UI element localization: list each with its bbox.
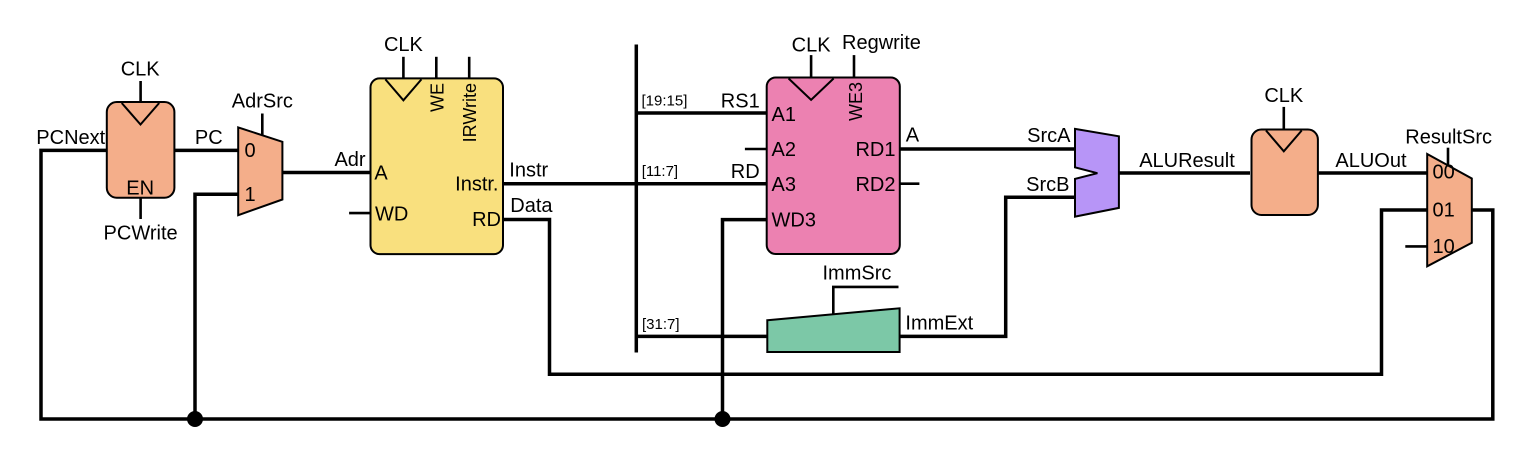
wire instruction bus vertical <box>635 45 639 353</box>
svg-text:Instr.: Instr. <box>455 173 498 195</box>
register ALUOut <box>1252 130 1318 216</box>
wire PC (register to AdrSrc mux input 0) <box>174 149 238 153</box>
svg-text:ALUResult: ALUResult <box>1139 150 1235 172</box>
wire RS1 tap [19:15] to A1 <box>636 111 766 115</box>
wire Adr (mux output to memory A) <box>282 171 370 175</box>
wire stub RD2 <box>900 182 919 185</box>
junction at bottom (Result to WD3) <box>715 411 731 427</box>
svg-text:RD2: RD2 <box>855 174 895 196</box>
svg-text:RS1: RS1 <box>721 91 760 113</box>
svg-text:Instr: Instr <box>509 159 548 181</box>
register file <box>767 78 900 255</box>
svg-text:SrcB: SrcB <box>1026 174 1069 196</box>
svg-text:10: 10 <box>1433 236 1455 258</box>
svg-text:Data: Data <box>510 195 553 217</box>
svg-text:WD: WD <box>375 203 408 225</box>
junction at bottom-left (Result to AdrSrc 1) <box>187 411 203 427</box>
svg-text:Regwrite: Regwrite <box>842 32 921 54</box>
svg-text:A1: A1 <box>772 104 796 126</box>
svg-text:EN: EN <box>126 178 154 200</box>
svg-text:0: 0 <box>245 140 256 162</box>
wire [31:7] tap to Extend <box>636 335 767 339</box>
svg-text:RD: RD <box>472 209 501 231</box>
memory Instr / Data memory <box>371 78 504 254</box>
svg-text:SrcA: SrcA <box>1027 125 1071 147</box>
svg-text:[11:7]: [11:7] <box>642 163 678 180</box>
clock chevron of ALUOut register <box>1266 131 1302 152</box>
svg-text:00: 00 <box>1433 161 1455 183</box>
svg-text:01: 01 <box>1433 200 1455 222</box>
wire SrcA (regfile RD1 to ALU) <box>900 147 1075 151</box>
mux AdrSrc <box>238 127 282 215</box>
wire stub A2 <box>745 148 767 151</box>
svg-text:CLK: CLK <box>121 58 161 80</box>
svg-text:IRWrite: IRWrite <box>460 83 480 142</box>
svg-text:1: 1 <box>245 184 256 206</box>
wire stub ResultSrc control <box>1447 148 1450 167</box>
wire Data (memory RD to ResultSrc mux input 01) <box>503 210 1427 374</box>
svg-text:WE3: WE3 <box>846 82 866 121</box>
clock chevron of memory <box>385 79 421 100</box>
wire stub CLK of memory <box>402 57 405 79</box>
svg-text:ALUOut: ALUOut <box>1335 150 1407 172</box>
svg-text:A: A <box>906 125 920 147</box>
svg-text:ResultSrc: ResultSrc <box>1405 127 1492 149</box>
wire ALUResult (ALU to ALUOut register) <box>1119 171 1250 175</box>
wire stub mux input 10 <box>1405 245 1427 248</box>
wire ALUOut (register to ResultSrc mux input 00) <box>1318 171 1428 175</box>
wire Result branch to regfile WD3 <box>723 220 767 419</box>
clock chevron of regfile <box>789 79 834 100</box>
svg-text:A2: A2 <box>772 139 796 161</box>
svg-text:ImmExt: ImmExt <box>905 312 973 334</box>
svg-text:AdrSrc: AdrSrc <box>232 91 293 113</box>
svg-text:ImmSrc: ImmSrc <box>823 262 892 284</box>
wire stub EN / PCWrite <box>139 198 142 219</box>
svg-text:PCWrite: PCWrite <box>104 223 178 245</box>
wire stub CLK of ALUOut register <box>1283 107 1286 130</box>
svg-text:WE: WE <box>427 83 447 112</box>
wire stub Regwrite / WE3 <box>853 55 856 77</box>
wire stub IRWrite <box>468 57 471 79</box>
ALU <box>1075 129 1119 217</box>
svg-text:PC: PC <box>195 127 223 149</box>
wire stub ImmSrc control <box>833 287 898 315</box>
wire Result branch to AdrSrc mux input 1 <box>195 194 238 419</box>
wire Instr (memory RD to regfile A3) <box>503 182 767 186</box>
svg-text:[19:15]: [19:15] <box>642 92 688 109</box>
wire Result feedback loop (mux output to PCNext) <box>41 150 1493 419</box>
svg-text:[31:7]: [31:7] <box>642 316 680 333</box>
extend unit <box>767 308 899 352</box>
wire stub CLK of regfile <box>810 55 813 77</box>
mux ResultSrc <box>1427 154 1472 266</box>
svg-text:RD: RD <box>731 161 760 183</box>
svg-text:CLK: CLK <box>384 34 424 56</box>
wire stub WE <box>435 57 438 79</box>
svg-text:Adr: Adr <box>334 149 365 171</box>
svg-text:A3: A3 <box>772 174 796 196</box>
svg-text:CLK: CLK <box>792 35 832 57</box>
svg-text:CLK: CLK <box>1264 85 1304 107</box>
wire stub WD <box>349 212 370 215</box>
svg-text:PCNext: PCNext <box>36 127 105 149</box>
clock chevron of PC register <box>122 103 160 125</box>
wire stub CLK of PC register <box>139 81 142 102</box>
svg-text:WD3: WD3 <box>772 209 816 231</box>
svg-text:A: A <box>374 163 388 185</box>
svg-text:RD1: RD1 <box>855 139 895 161</box>
register PC <box>107 102 175 198</box>
wire ImmExt to SrcB <box>900 197 1075 336</box>
wire stub AdrSrc control <box>261 114 264 136</box>
